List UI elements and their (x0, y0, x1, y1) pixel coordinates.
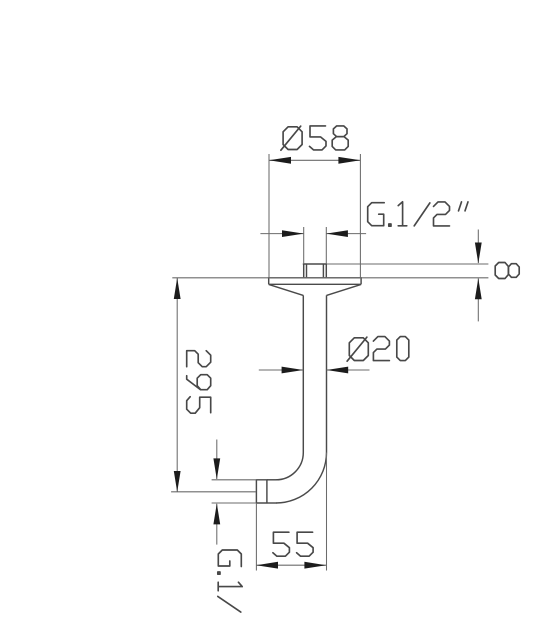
dimension line dia20 left (259, 369, 304, 371)
extension line nipple right above (325, 227, 327, 264)
arrow dia58 right (338, 157, 360, 164)
arrow outlet down (213, 458, 220, 479)
flange cone left (269, 284, 304, 295)
extension line flange top long (295 left / 8 right) (172, 277, 488, 279)
nipple G1/2 top edge (303, 263, 327, 265)
arrow 8-dim down (475, 243, 482, 264)
8-dim upper arrow shaft (477, 230, 479, 264)
nipple outer left wall (303, 264, 305, 278)
arrow 8-dim up (475, 278, 482, 299)
label dia20 (347, 337, 409, 362)
dimension line G.1/2 left tail (260, 233, 303, 235)
outlet G1/2 lower arrow shaft (216, 504, 218, 545)
arrow G.1/2 right (points left) (326, 230, 348, 237)
label dia58 (281, 126, 348, 150)
extension line dia58 left (268, 154, 270, 278)
arrow dia20 right (points left) (327, 367, 349, 374)
extension line outlet top (212, 479, 257, 481)
nipple outer right wall (325, 264, 327, 278)
elbow outer arc (276, 453, 327, 504)
outlet top edge (267, 479, 277, 481)
outlet bottom edge (267, 502, 277, 504)
dimension line dia58 (269, 159, 360, 161)
outlet end cap (256, 480, 267, 503)
arrow 55 right (304, 562, 326, 569)
8-dim lower arrow shaft (477, 279, 479, 322)
extension line 55 right / pipe edge extended (326, 453, 328, 571)
arrow 295 bottom (points down) (174, 471, 181, 492)
label G.1/2" bottom (rotated, clipped) (218, 550, 242, 612)
arrow outlet up (213, 503, 220, 524)
extension line dia58 right (359, 154, 361, 278)
pipe left wall (302, 295, 304, 452)
arrow G.1/2 left (points right) (282, 230, 304, 237)
arrow 295 top (points up) (174, 278, 181, 299)
label 55 (273, 532, 313, 556)
pipe right wall (326, 295, 328, 452)
label 295 (rotated) (187, 351, 211, 414)
arrow dia20 left (points right) (282, 367, 304, 374)
label 8 (rotated) (495, 263, 519, 279)
nipple inner thread line left (306, 264, 308, 278)
flange top plate (268, 278, 362, 285)
arrow dia58 left (269, 157, 291, 164)
nipple inner thread line right (322, 264, 324, 278)
dimension line 55 (256, 564, 326, 566)
flange cone right (327, 284, 362, 295)
dimension line dia20 right (327, 369, 370, 371)
dimension line G.1/2 right tail (326, 233, 366, 235)
arrow 55 left (256, 562, 278, 569)
extension line outlet bottom (212, 502, 257, 504)
extension line nipple top to right (G.1/2 leader / 8 dim) (327, 263, 488, 265)
extension line 295 bottom (outlet axis) (171, 491, 256, 493)
extension line 55 left (255, 503, 257, 571)
dimension line 295 vertical (176, 278, 178, 492)
label G.1/2" top (368, 202, 468, 226)
outlet G1/2 upper arrow shaft (216, 440, 218, 480)
elbow inner arc (276, 453, 303, 480)
extension line nipple left above (303, 227, 305, 264)
